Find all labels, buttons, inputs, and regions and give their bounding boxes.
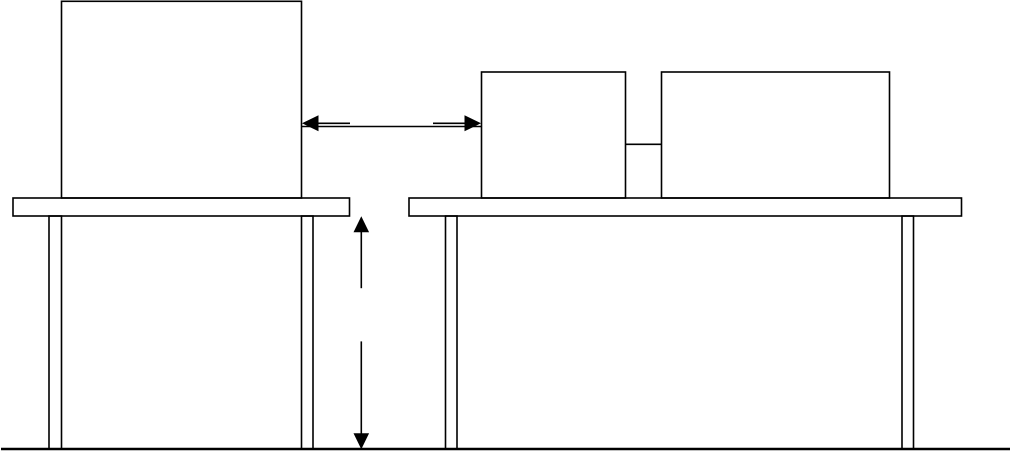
right table top	[409, 198, 962, 216]
connector line between right boxes	[626, 143, 662, 145]
right arrowhead	[465, 115, 482, 131]
horizontal dimension line	[302, 126, 481, 128]
left table leg 1	[49, 216, 62, 449]
vertical up-arrow tail	[360, 229, 362, 288]
right table leg 1	[446, 216, 458, 449]
vertical down arrowhead	[354, 433, 370, 449]
left arrowhead	[302, 115, 319, 131]
right table leg 2	[902, 216, 914, 449]
right arrow tail	[433, 122, 467, 124]
right box 1 (CPU unit)	[482, 72, 626, 198]
vertical up arrowhead	[354, 216, 370, 232]
right box 2 (printer unit)	[662, 72, 890, 198]
left table leg 2	[302, 216, 314, 449]
left arrow tail	[316, 122, 350, 124]
left table top	[13, 198, 350, 216]
ground line	[1, 448, 1010, 450]
vertical down-arrow tail	[360, 341, 362, 436]
left box (monitor)	[62, 1, 302, 198]
